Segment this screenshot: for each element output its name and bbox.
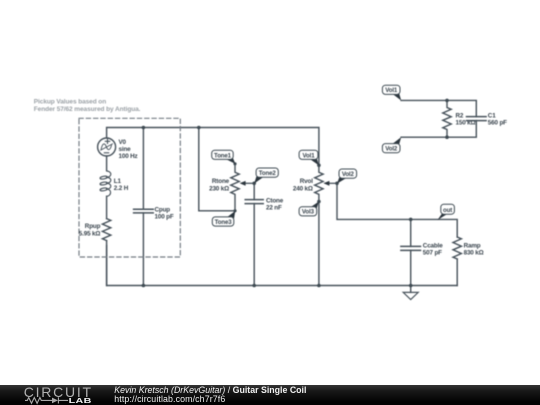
junction R2 top / Vol1 net	[445, 99, 449, 103]
footer text	[114, 386, 306, 395]
svg-text:LAB: LAB	[68, 397, 91, 405]
inductor L1	[100, 171, 111, 196]
junction top rail / Cpup	[142, 126, 146, 130]
wire Rpup to bottom rail	[106, 241, 108, 286]
svg-text:Ccable: Ccable	[423, 243, 443, 250]
svg-text:Ramp: Ramp	[464, 243, 481, 250]
svg-text:100 pF: 100 pF	[155, 214, 174, 221]
svg-text:Rtone: Rtone	[212, 178, 230, 185]
svg-text:507 pF: 507 pF	[423, 250, 442, 257]
voltage source V0	[98, 138, 116, 156]
svg-text:2.2 H: 2.2 H	[114, 185, 129, 192]
capacitor C1	[467, 117, 487, 121]
node Tone2	[254, 177, 263, 184]
component text labels	[79, 113, 507, 257]
node Tone1	[226, 157, 236, 164]
svg-text:sine: sine	[119, 146, 132, 153]
svg-text:Rpup: Rpup	[85, 223, 101, 230]
svg-text:C1: C1	[488, 113, 496, 120]
svg-text:Vol2: Vol2	[342, 171, 355, 178]
junction Rtone wiper / Ctone (node Tone2)	[252, 182, 256, 186]
svg-text:Tone2: Tone2	[259, 170, 277, 177]
svg-text:Tone3: Tone3	[215, 219, 233, 226]
junction bottom rail / Rvol	[317, 284, 321, 288]
wire Ramp to bottom rail	[456, 259, 458, 286]
wire bottom rail	[107, 246, 458, 286]
svg-text:V0: V0	[119, 139, 127, 146]
node Tone3	[227, 211, 236, 219]
wire Tone2 wiper to Ctone	[253, 183, 255, 199]
junction Rvol wiper (node Vol2)	[335, 182, 339, 186]
svg-text:5.95 kΩ: 5.95 kΩ	[79, 230, 101, 237]
wire Vol2 wiper to out line	[337, 183, 457, 237]
svg-text:Vol3: Vol3	[302, 209, 315, 216]
resistor Ramp	[453, 237, 461, 259]
terminal Rvol pin 3 (Vol3)	[317, 200, 321, 204]
svg-text:560 pF: 560 pF	[488, 120, 507, 127]
potentiometer Rvol	[315, 165, 337, 201]
capacitor Cpup	[134, 128, 154, 286]
terminal Rtone pin 1 (Tone1)	[233, 162, 236, 165]
junction bottom rail / Cpup	[142, 284, 146, 288]
svg-text:Vol1: Vol1	[385, 87, 398, 94]
node Vol2	[337, 178, 346, 184]
svg-text:Tone1: Tone1	[214, 152, 232, 159]
node Vol3	[311, 202, 319, 209]
wire Rvol bottom to rail	[318, 202, 320, 286]
junction top rail / tone branch	[197, 126, 201, 130]
node out	[437, 213, 447, 220]
terminal Rtone pin 3 (Tone3)	[233, 209, 236, 212]
junction bottom rail / ground	[409, 284, 413, 288]
potentiometer Rtone	[231, 164, 254, 211]
junction bottom rail / Ctone	[252, 284, 256, 288]
svg-text:240 kΩ: 240 kΩ	[293, 185, 313, 192]
wire R2C1 top	[401, 100, 476, 116]
svg-text:R2: R2	[456, 113, 464, 120]
svg-text:22 nF: 22 nF	[266, 204, 282, 211]
ground	[403, 286, 418, 300]
annotation note	[34, 99, 141, 114]
resistor Rpup	[102, 219, 110, 241]
capacitor Ccable	[401, 219, 421, 285]
wire R2C1 bottom	[401, 121, 476, 138]
dashed annotation box	[79, 118, 180, 257]
terminal Rvol pin 1 (Vol1)	[317, 164, 321, 168]
svg-text:100 Hz: 100 Hz	[119, 153, 138, 160]
node Vol2 (treble bleed)	[393, 137, 401, 145]
wire top rail	[107, 128, 319, 166]
svg-text:830 kΩ: 830 kΩ	[464, 250, 484, 257]
wire V0 to L1	[106, 156, 108, 170]
svg-text:Fender 57/62 measured by Antig: Fender 57/62 measured by Antigua.	[34, 106, 141, 113]
svg-text:Vol1: Vol1	[303, 152, 316, 159]
svg-text:150 kΩ: 150 kΩ	[456, 120, 476, 127]
CircuitLab logo	[23, 385, 103, 405]
svg-text:Rvol: Rvol	[300, 178, 313, 185]
wire L1 to Rpup	[106, 196, 108, 218]
junction R2 bottom / Vol2 net	[445, 135, 449, 139]
svg-text:Ctone: Ctone	[266, 197, 284, 204]
node Vol1	[310, 157, 319, 166]
node Vol1 (treble bleed)	[393, 93, 401, 101]
svg-text:230 kΩ: 230 kΩ	[209, 185, 229, 192]
capacitor Ctone	[245, 200, 263, 286]
junction out wire / Ccable	[409, 218, 413, 222]
wire tone branch	[199, 128, 235, 211]
svg-text:Pickup Values based on: Pickup Values based on	[34, 99, 106, 106]
footer bar	[0, 385, 540, 405]
svg-text:Vol2: Vol2	[385, 146, 398, 153]
svg-text:out: out	[443, 207, 452, 214]
net label flags	[212, 85, 455, 226]
svg-text:Cpup: Cpup	[155, 207, 171, 214]
svg-text:L1: L1	[114, 178, 122, 185]
resistor R2	[443, 100, 451, 137]
